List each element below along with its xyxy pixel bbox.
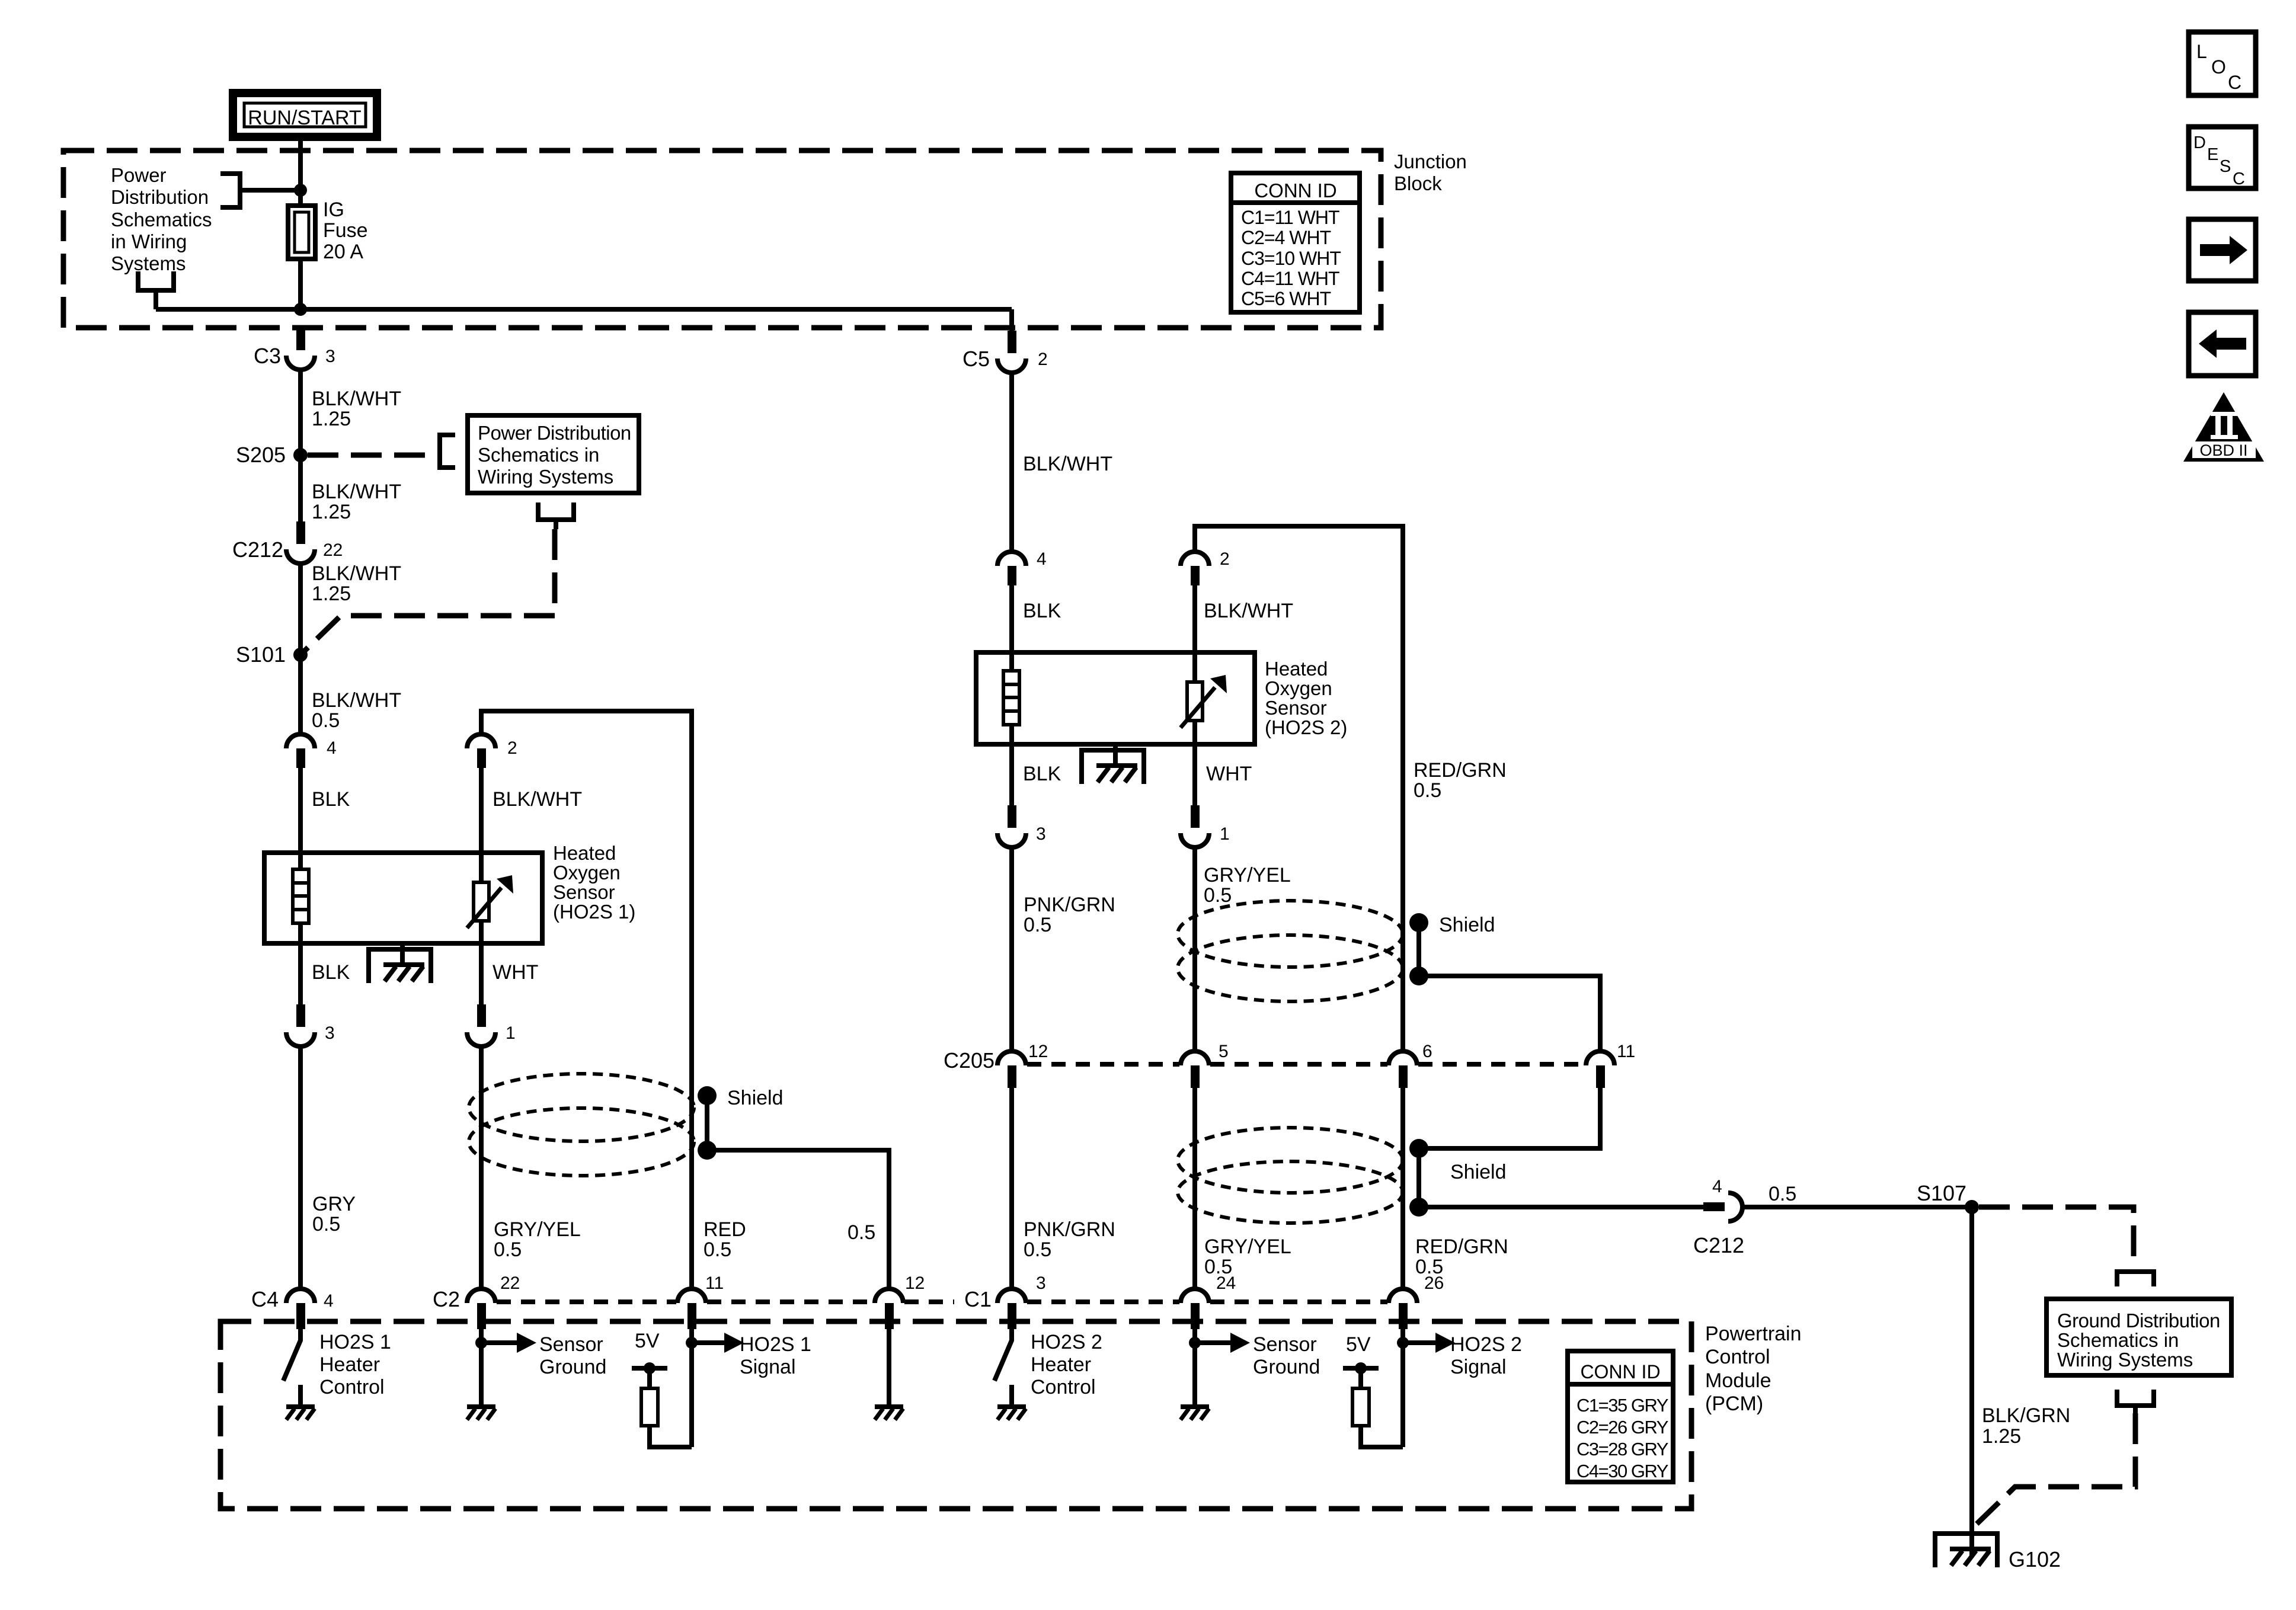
svg-text:3: 3 (325, 347, 335, 366)
shield drain dots HO2S1 (698, 1086, 784, 1160)
label: Powertrain Control Module (PCM) (1705, 1323, 1802, 1415)
svg-text:C5: C5 (962, 347, 990, 371)
svg-text:Ground: Ground (1253, 1356, 1320, 1378)
connector PCM C1 pin 3 (964, 1273, 1046, 1329)
svg-text:Wiring Systems: Wiring Systems (2057, 1349, 2193, 1371)
svg-text:5: 5 (1219, 1042, 1229, 1061)
svg-text:PNK/GRN: PNK/GRN (1024, 894, 1115, 916)
svg-text:2: 2 (1220, 549, 1230, 569)
wire: RUN/START to fuse (298, 137, 303, 206)
svg-text:1.25: 1.25 (312, 501, 351, 523)
heater element HO2S1 (293, 853, 309, 943)
wire: shield drain to PCM pin 12 (707, 1150, 889, 1289)
svg-text:12: 12 (1028, 1042, 1048, 1061)
ground G102 (1935, 1534, 2061, 1571)
svg-text:RED/GRN: RED/GRN (1414, 759, 1507, 782)
dashed reference link from S205 (308, 453, 440, 458)
node S205 splice (236, 443, 308, 467)
ground: shield drain ground (875, 1407, 903, 1420)
svg-text:Heated: Heated (553, 842, 616, 864)
svg-text:S101: S101 (236, 642, 286, 667)
label BLK/WHT at HO2S2 pin 2 (1204, 600, 1293, 622)
wire: sensor ground leg pin 24 (1192, 1329, 1197, 1407)
5V reference for HO2S2 signal (1343, 1333, 1379, 1388)
svg-text:0.5: 0.5 (494, 1238, 522, 1261)
wire: connector 2 to HO2S1 box (479, 768, 484, 853)
wire: C212 to S107, 0.5 (1742, 1183, 1972, 1207)
reference label: Power Distribution Schematics in Wiring Systems (junction block) (111, 164, 212, 274)
wire: S101 to HO2S1 connector 4, BLK/WHT 0.5 (300, 655, 401, 734)
connector C3 pin 3 (254, 328, 335, 370)
connector PCM C2 pin 22 (433, 1273, 520, 1329)
wire: sensor ground leg C2 (479, 1329, 484, 1407)
svg-text:D: D (2193, 133, 2206, 152)
wire: upper shield drain over to C205 pin 11 (1419, 976, 1600, 1051)
label: Heated Oxygen Sensor (HO2S 1) (553, 842, 635, 923)
svg-text:Control: Control (319, 1376, 385, 1398)
node: HO2S2 signal tap dot (1397, 1337, 1409, 1349)
connector PCM pin 26 (1389, 1273, 1444, 1329)
wire: HO2S1 signal column, RED 0.5 (703, 1218, 746, 1261)
svg-text:HO2S 1: HO2S 1 (319, 1331, 391, 1353)
wire: C205 pin 12 to PCM C1, PNK/GRN 0.5 (1012, 1088, 1115, 1289)
svg-text:0.5: 0.5 (1414, 779, 1441, 802)
connector HO2S2 pin 1 (1181, 805, 1230, 847)
connector C205 pin 11 (1586, 1042, 1635, 1088)
svg-text:OBD II: OBD II (2199, 441, 2247, 459)
svg-text:2: 2 (507, 738, 517, 758)
connector PCM C4 pin 4 (251, 1287, 334, 1329)
RUN/START ignition switch box (233, 93, 377, 137)
svg-text:C4=11 WHT: C4=11 WHT (1241, 268, 1339, 289)
wire: connector 3 to PCM C4, GRY 0.5 (300, 1046, 356, 1289)
svg-text:1.25: 1.25 (312, 408, 351, 430)
svg-text:CONN ID: CONN ID (1254, 180, 1336, 201)
svg-text:C3=10 WHT: C3=10 WHT (1241, 248, 1341, 269)
HO2S2 component box (976, 652, 1255, 744)
svg-text:WHT: WHT (493, 961, 538, 984)
svg-text:E: E (2207, 145, 2218, 164)
icon: arrow right box (2189, 219, 2256, 281)
svg-text:22: 22 (500, 1273, 520, 1293)
table: PCM CONN ID (1568, 1351, 1673, 1482)
reference box: Power Distribution Schematics in Wiring Systems (468, 415, 639, 493)
svg-text:GRY: GRY (312, 1193, 356, 1215)
node: power distribution tap (294, 184, 307, 197)
svg-text:BLK/WHT: BLK/WHT (1023, 453, 1112, 475)
svg-text:1: 1 (1220, 824, 1230, 844)
svg-text:3: 3 (1036, 1273, 1046, 1293)
svg-text:C212: C212 (1693, 1233, 1744, 1257)
svg-text:Sensor: Sensor (1253, 1333, 1317, 1356)
svg-text:BLK/GRN: BLK/GRN (1982, 1404, 2070, 1427)
wire: HO2S1 signal inside PCM (689, 1329, 694, 1447)
svg-text:12: 12 (905, 1273, 925, 1293)
icon: arrow left box (2189, 312, 2256, 376)
svg-text:0.5: 0.5 (1204, 884, 1232, 907)
svg-text:0.5: 0.5 (848, 1221, 875, 1244)
svg-text:Powertrain: Powertrain (1705, 1323, 1802, 1345)
arrow: HO2S 1 Signal (692, 1333, 811, 1378)
wire: HO2S2 signal inside PCM (1400, 1329, 1405, 1447)
svg-text:Shield: Shield (1450, 1161, 1507, 1183)
junction block label (1394, 151, 1467, 194)
svg-text:4: 4 (1037, 549, 1047, 569)
wire: fuse to bus (298, 259, 303, 309)
wire: C3 to S205, BLK/WHT 1.25 (300, 370, 401, 455)
shield drain dots HO2S2 upper (1409, 913, 1495, 985)
wire: junction block horizontal bus (156, 307, 1012, 312)
svg-text:1.25: 1.25 (1982, 1425, 2021, 1448)
svg-text:C1=35 GRY: C1=35 GRY (1576, 1395, 1668, 1416)
wire: HO2S2 box to connector 3, BLK (1012, 744, 1061, 805)
svg-text:BLK/WHT: BLK/WHT (312, 481, 401, 503)
bracket: above Ground Distribution box (2115, 1272, 2156, 1286)
connector C212 pin 22 (232, 521, 343, 564)
svg-text:PNK/GRN: PNK/GRN (1024, 1218, 1115, 1241)
wire: C205 pin 11 down and over to lower shield (1419, 1088, 1600, 1148)
PCM dashed enclosure (220, 1321, 1691, 1509)
arrow: Sensor Ground HO2S2 (1195, 1333, 1320, 1378)
svg-text:C4=30 GRY: C4=30 GRY (1576, 1461, 1668, 1481)
svg-text:0.5: 0.5 (703, 1238, 731, 1261)
connector PCM pin 24 (1181, 1273, 1236, 1329)
svg-text:Schematics in: Schematics in (2057, 1329, 2179, 1351)
svg-text:3: 3 (325, 1023, 335, 1043)
svg-text:Sensor: Sensor (1265, 697, 1327, 719)
label: IG Fuse 20 A (323, 199, 368, 263)
resistor: HO2S1 signal pull-up (641, 1388, 692, 1447)
dashed link: S107 to Ground Distribution reference (1979, 1207, 2134, 1269)
shield drain dots HO2S2 lower (1409, 1139, 1507, 1217)
reference box: Ground Distribution Schematics in Wiring Systems (2046, 1299, 2231, 1375)
icon: DESC box (2189, 127, 2256, 188)
svg-text:RED/GRN: RED/GRN (1415, 1235, 1508, 1258)
wire: C5 to HO2S2 connector 4, BLK/WHT (1012, 373, 1112, 552)
svg-text:in Wiring: in Wiring (111, 231, 187, 252)
wire: C205 pin 5 to PCM pin 24, GRY/YEL 0.5 (1195, 1088, 1291, 1289)
wire: connector 1 to C205 pin 5, GRY/YEL 0.5 (1195, 847, 1291, 1051)
connector PCM pin 12 (875, 1273, 925, 1329)
ground: sensor ground leg (467, 1407, 495, 1420)
ground: sensor ground leg HO2S2 (1181, 1407, 1209, 1420)
svg-text:20 A: 20 A (323, 241, 363, 263)
dashed connector face line PCM left (497, 1299, 954, 1304)
svg-text:5V: 5V (635, 1330, 660, 1352)
connector C212 pin 4 (horizontal) (1693, 1177, 1744, 1257)
svg-text:C2=4 WHT: C2=4 WHT (1241, 227, 1331, 248)
dashed link: box to S101 (300, 529, 555, 655)
svg-text:HO2S 2: HO2S 2 (1450, 1333, 1522, 1356)
svg-text:0.5: 0.5 (1024, 914, 1051, 936)
svg-text:C212: C212 (232, 537, 283, 562)
fuse IG 20 A (288, 206, 315, 259)
connector HO2S1 pin 4 (286, 734, 337, 768)
svg-text:Control: Control (1705, 1346, 1770, 1368)
svg-text:RUN/START: RUN/START (248, 107, 361, 129)
label: Heated Oxygen Sensor (HO2S 2) (1265, 658, 1347, 738)
svg-text:BLK/WHT: BLK/WHT (312, 388, 401, 410)
node S101 splice (236, 642, 308, 667)
svg-text:4: 4 (324, 1291, 334, 1311)
svg-text:0.5: 0.5 (312, 1213, 340, 1235)
svg-text:G102: G102 (2009, 1547, 2061, 1571)
svg-text:Heated: Heated (1265, 658, 1328, 680)
sensor element HO2S1 (variable resistor with arrow) (467, 853, 513, 943)
bracket: lower link from Systems text to bus (136, 271, 176, 309)
bracket: power distribution reference link (220, 174, 300, 207)
svg-text:BLK/WHT: BLK/WHT (1204, 600, 1293, 622)
wire: bus drop to C5 (1009, 309, 1014, 332)
wire: HO2S2 signal loop top over to right column (1195, 526, 1403, 1051)
wire: connector 2 to HO2S2 box (1192, 585, 1197, 682)
label: HO2S 1 Heater Control (319, 1331, 391, 1398)
svg-text:0.5: 0.5 (312, 709, 340, 732)
svg-text:L: L (2196, 41, 2207, 62)
label RED/GRN 0.5 upper right column (1414, 759, 1507, 802)
wire: S205 to C212, BLK/WHT 1.25 (300, 455, 401, 523)
shield ellipses around HO2S2 signal pair lower (1178, 1128, 1403, 1223)
svg-text:0.5: 0.5 (1024, 1238, 1051, 1261)
svg-text:3: 3 (1036, 824, 1046, 844)
bracket: link into Power Distribution box (440, 435, 455, 468)
svg-text:24: 24 (1216, 1273, 1236, 1293)
svg-text:Oxygen: Oxygen (1265, 677, 1332, 699)
resistor: HO2S2 signal pull-up (1352, 1388, 1403, 1447)
icon: OBD II triangle (2183, 392, 2264, 462)
svg-text:C: C (2228, 72, 2241, 93)
svg-text:4: 4 (1712, 1177, 1722, 1196)
svg-text:4: 4 (327, 738, 337, 758)
bracket: below Ground Distribution box (2115, 1390, 2156, 1413)
svg-text:C2: C2 (433, 1287, 460, 1311)
wire: connector 4 to HO2S1 box, BLK (300, 768, 350, 853)
svg-text:C3=28 GRY: C3=28 GRY (1576, 1439, 1668, 1459)
svg-text:Shield: Shield (727, 1087, 784, 1109)
svg-text:Heater: Heater (319, 1353, 380, 1376)
svg-text:Junction: Junction (1394, 151, 1467, 172)
ground: HO2S2 case ground (1082, 744, 1144, 784)
connector C205 pin 6 (1389, 1042, 1432, 1088)
connector HO2S2 pin 2 (1181, 549, 1230, 585)
svg-text:Heater: Heater (1031, 1353, 1091, 1376)
svg-text:Power Distribution: Power Distribution (478, 422, 631, 444)
svg-text:BLK: BLK (1023, 763, 1061, 785)
connector PCM pin 11 (677, 1273, 724, 1329)
svg-text:Ground Distribution: Ground Distribution (2057, 1310, 2220, 1331)
svg-text:26: 26 (1424, 1273, 1444, 1293)
svg-text:Sensor: Sensor (553, 881, 615, 903)
svg-text:GRY/YEL: GRY/YEL (1204, 864, 1291, 886)
svg-text:C205: C205 (944, 1048, 994, 1073)
switch: HO2S1 heater control driver (283, 1329, 300, 1407)
svg-text:IG: IG (323, 199, 344, 221)
svg-text:1: 1 (506, 1023, 516, 1043)
svg-text:Block: Block (1394, 172, 1442, 194)
connector HO2S2 pin 4 (997, 549, 1047, 585)
svg-text:CONN ID: CONN ID (1580, 1361, 1660, 1382)
svg-text:BLK: BLK (312, 788, 350, 811)
svg-text:Signal: Signal (1450, 1356, 1507, 1378)
svg-text:Signal: Signal (740, 1356, 796, 1378)
svg-text:Shield: Shield (1439, 914, 1495, 936)
svg-text:C: C (2233, 169, 2245, 188)
svg-text:BLK/WHT: BLK/WHT (312, 689, 401, 712)
svg-text:C1=11 WHT: C1=11 WHT (1241, 207, 1339, 228)
HO2S1 component box (264, 853, 542, 943)
heater element HO2S2 (1003, 652, 1019, 744)
arrow: Sensor Ground (481, 1333, 606, 1378)
table: junction block CONN ID (1231, 173, 1360, 312)
node: sensor ground tap dot HO2S2 (1189, 1337, 1201, 1349)
connector HO2S1 pin 3 (286, 1004, 335, 1046)
connector C205 pin 5 (1181, 1042, 1229, 1088)
svg-text:11: 11 (705, 1273, 724, 1293)
wire: connector 1 to PCM C2, GRY/YEL 0.5 (481, 1046, 581, 1289)
svg-text:C3: C3 (254, 344, 281, 368)
label: HO2S 2 Heater Control (1031, 1331, 1102, 1398)
connector HO2S2 pin 3 (997, 805, 1046, 847)
svg-text:C2=26 GRY: C2=26 GRY (1576, 1417, 1668, 1438)
svg-text:BLK/WHT: BLK/WHT (493, 788, 582, 811)
svg-text:HO2S 1: HO2S 1 (740, 1333, 811, 1356)
svg-text:(HO2S 2): (HO2S 2) (1265, 716, 1347, 738)
svg-text:Power: Power (111, 164, 167, 186)
svg-text:Schematics in: Schematics in (478, 444, 599, 466)
shield ellipses around HO2S1 signal pair (469, 1074, 694, 1176)
svg-text:BLK/WHT: BLK/WHT (312, 562, 401, 585)
svg-text:1.25: 1.25 (312, 582, 351, 605)
svg-text:C1: C1 (964, 1287, 992, 1311)
connector C5 pin 2 (962, 331, 1048, 373)
arrow: HO2S 2 Signal (1403, 1333, 1522, 1378)
svg-text:RED: RED (703, 1218, 746, 1241)
svg-text:2: 2 (1038, 350, 1048, 369)
svg-text:6: 6 (1422, 1042, 1432, 1061)
svg-text:11: 11 (1617, 1042, 1635, 1061)
node: bus junction dot (294, 303, 307, 316)
label BLK/WHT at HO2S1 pin 2 (493, 788, 582, 811)
svg-text:C5=6 WHT: C5=6 WHT (1241, 288, 1331, 309)
dashed connector face line PCM right (1027, 1299, 1387, 1304)
node: sensor ground tap dot (475, 1337, 487, 1349)
svg-text:Ground: Ground (539, 1356, 606, 1378)
wire: S107 to G102, BLK/GRN 1.25 (1972, 1207, 2070, 1557)
node: HO2S1 signal tap dot (686, 1337, 698, 1349)
node S107 splice (1917, 1181, 1979, 1214)
svg-text:Distribution: Distribution (111, 186, 209, 208)
wire: C212 to S101, BLK/WHT 1.25 (300, 562, 401, 655)
svg-text:S: S (2220, 157, 2231, 176)
bracket: below Power Distribution box (536, 502, 576, 529)
wire: signal loop top over to signal column (481, 711, 692, 1289)
5V reference for HO2S1 signal (632, 1330, 667, 1388)
ground: HO2S1 heater driver ground (286, 1407, 315, 1420)
svg-text:BLK: BLK (1023, 600, 1061, 622)
svg-text:Systems: Systems (111, 252, 186, 274)
sensor element HO2S2 (variable resistor with arrow) (1181, 675, 1227, 744)
wire: RED/GRN 0.5 to PCM pin 26 (1403, 1088, 1508, 1289)
svg-text:5V: 5V (1346, 1333, 1371, 1356)
svg-text:WHT: WHT (1206, 763, 1252, 785)
wire: lower shield drain to C212 (1419, 1205, 1703, 1209)
svg-text:Oxygen: Oxygen (553, 862, 621, 884)
connector HO2S1 pin 1 (467, 1004, 516, 1046)
svg-text:O: O (2211, 56, 2226, 78)
svg-text:(HO2S 1): (HO2S 1) (553, 901, 635, 923)
svg-text:Wiring Systems: Wiring Systems (478, 466, 613, 488)
dashed connector face line C205 (1027, 1062, 1585, 1067)
svg-text:S205: S205 (236, 443, 286, 467)
ground: HO2S2 heater driver ground (997, 1407, 1026, 1420)
svg-text:GRY/YEL: GRY/YEL (1204, 1235, 1291, 1258)
shield ellipses around HO2S2 signal pair upper (1178, 901, 1403, 1001)
svg-text:Module: Module (1705, 1369, 1771, 1392)
svg-text:(PCM): (PCM) (1705, 1393, 1763, 1415)
wire: HO2S1 box to connector 1, WHT (481, 943, 538, 1004)
svg-text:C4: C4 (251, 1287, 279, 1311)
svg-text:HO2S 2: HO2S 2 (1031, 1331, 1102, 1353)
ground: HO2S1 case ground (369, 943, 431, 983)
svg-text:Schematics: Schematics (111, 209, 212, 231)
svg-text:S107: S107 (1917, 1181, 1966, 1205)
wire: HO2S1 box to connector 3, BLK (300, 943, 350, 1004)
svg-text:Fuse: Fuse (323, 219, 368, 242)
wire: HO2S2 box to connector 1, WHT (1195, 744, 1252, 805)
svg-text:0.5: 0.5 (1769, 1183, 1796, 1205)
connector C205 pin 12 (944, 1042, 1048, 1088)
dashed link: Ground Distribution box to G102 (1977, 1413, 2135, 1524)
wire: connector 4 to HO2S2 box, BLK (1012, 585, 1061, 652)
svg-text:GRY/YEL: GRY/YEL (494, 1218, 581, 1241)
icon: LOC box (2189, 32, 2256, 95)
connector HO2S1 pin 2 (467, 734, 517, 768)
junction block dashed enclosure (63, 151, 1381, 328)
switch: HO2S2 heater control driver (994, 1329, 1012, 1407)
wire: shield drain ground leg pin 12 (887, 1329, 891, 1407)
svg-text:BLK: BLK (312, 961, 350, 984)
svg-text:Control: Control (1031, 1376, 1096, 1398)
wire: connector 3 to C205 pin 12, PNK/GRN 0.5 (1012, 847, 1115, 1051)
svg-text:Sensor: Sensor (539, 1333, 603, 1356)
svg-text:22: 22 (323, 540, 343, 560)
